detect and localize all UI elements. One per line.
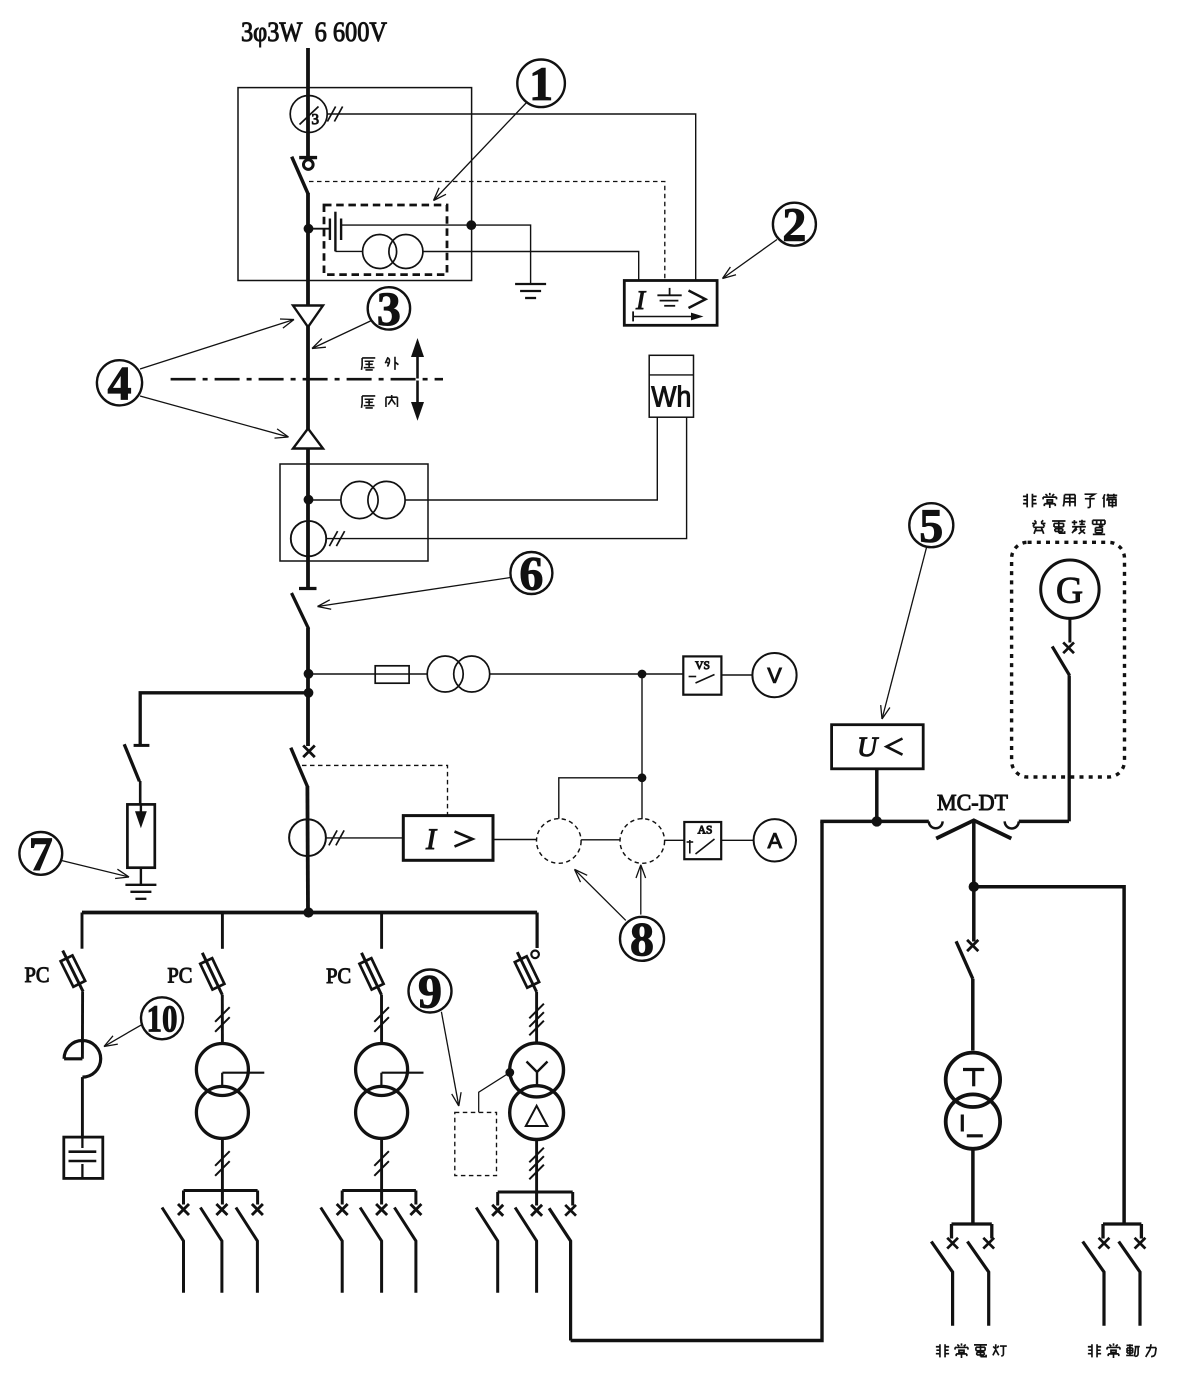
ground symbol (arrester earth) bbox=[125, 884, 156, 886]
MCCB 3a bbox=[337, 1204, 348, 1215]
generator enclosure dotted box bbox=[1012, 542, 1125, 777]
wire: T1 to MCCB group bbox=[221, 1138, 224, 1190]
series reactor L (10) bbox=[64, 1041, 101, 1078]
wire: UV relay to MC-DT net bbox=[875, 769, 879, 822]
wire: CB to bus bbox=[305, 786, 309, 913]
wire: VT to VS switch bbox=[490, 673, 684, 675]
wire: cable run CH1 to CH2 bbox=[306, 327, 310, 430]
svg-text:7: 7 bbox=[29, 828, 53, 881]
wire: commercial side to MC-DT bbox=[820, 820, 929, 824]
wire: link1 to link2 bbox=[581, 839, 620, 841]
disconnector DS (arrester) bbox=[134, 744, 150, 747]
wire: cutout to reactor bbox=[81, 992, 84, 1059]
ground-fault relay box (2) bbox=[624, 281, 717, 326]
MCCB 3b bbox=[376, 1204, 387, 1215]
MCCB group feeder 3 bbox=[342, 1189, 416, 1192]
node D junction (VT tap) bbox=[304, 669, 314, 679]
balloon 5 bbox=[909, 503, 953, 547]
winding symbol T (primary) bbox=[963, 1068, 984, 1071]
node E junction (arrester tap) bbox=[304, 688, 314, 698]
node F junction bbox=[638, 670, 647, 679]
leader arrow from balloon 6 to DS bbox=[318, 578, 511, 607]
svg-text:3: 3 bbox=[311, 112, 319, 128]
voltmeter changeover switch VS bbox=[683, 656, 721, 694]
wire: bus to feeder 4 cutout bbox=[535, 913, 538, 949]
wire: node G to left test link bbox=[559, 778, 642, 819]
property boundary dash-dot line bbox=[171, 378, 443, 381]
wire: generator to switch bbox=[1068, 618, 1071, 642]
node K junction (bus) bbox=[303, 907, 313, 917]
balloon 1 bbox=[517, 60, 565, 108]
wire tick marks (3) bbox=[529, 1004, 544, 1019]
balloon 6 bbox=[510, 552, 552, 594]
T1 centre-tap symbol bbox=[222, 1072, 264, 1074]
T3 star winding symbol Y bbox=[527, 1062, 548, 1085]
balloon 2 bbox=[773, 203, 816, 246]
node B junction on cubicle edge bbox=[466, 220, 476, 230]
wire: fuse to VT bbox=[409, 673, 427, 675]
primary cutout PC4 with fuse and hook bbox=[531, 951, 539, 959]
wire: reactor to capacitor bbox=[81, 1077, 84, 1137]
transformer VT (metering) bbox=[341, 481, 378, 518]
receiving cubicle enclosure box bbox=[238, 88, 472, 281]
node G junction bbox=[638, 773, 647, 782]
svg-text:9: 9 bbox=[418, 966, 442, 1019]
MCCB 4c (feeds emergency circuit) bbox=[565, 1205, 576, 1216]
CT main bbox=[289, 819, 326, 856]
MCCB group feeder 4 bbox=[498, 1191, 573, 1194]
wire: cutout to transformer T1 bbox=[221, 995, 224, 1044]
svg-text:G: G bbox=[1056, 571, 1083, 612]
watt-hour meter Wh bbox=[649, 355, 693, 417]
cable head CH1 (outdoor side) bbox=[293, 306, 323, 328]
svg-text:6: 6 bbox=[519, 548, 543, 601]
svg-text:AS: AS bbox=[698, 824, 713, 836]
leader arrow from balloon 7 to arrester earth bbox=[62, 861, 130, 878]
svg-text:10: 10 bbox=[146, 998, 177, 1040]
wire: node E to arrester branch bbox=[140, 693, 308, 747]
wire: ZPD to earth point bbox=[341, 224, 471, 226]
svg-text:1: 1 bbox=[529, 58, 553, 111]
label outdoor (oku-gai) bbox=[361, 358, 375, 370]
svg-text:3φ3W 6 600V: 3φ3W 6 600V bbox=[241, 17, 387, 48]
transformer T3 star-delta bbox=[510, 1043, 564, 1097]
svg-text:A: A bbox=[768, 829, 783, 853]
svg-text:MC-DT: MC-DT bbox=[937, 790, 1008, 815]
label emergency lighting (hijou dentou) bbox=[936, 1344, 949, 1357]
MC-DT left fixed contact bbox=[929, 821, 943, 828]
leader arrow from balloon 5 to UV relay bbox=[882, 548, 927, 720]
wire: bus to feeder 3 cutout bbox=[380, 913, 383, 949]
svg-text:2: 2 bbox=[782, 199, 806, 252]
wire: link2 to AS switch bbox=[665, 839, 685, 841]
metering VCT cubicle box bbox=[280, 464, 428, 561]
leader arrow from balloon 1 to ZCT unit bbox=[434, 102, 528, 201]
transformer VT (voltmeter) bbox=[427, 656, 463, 692]
transformer T1 (single phase) bbox=[196, 1044, 248, 1096]
leader arrow from balloon 8 to link 1 bbox=[575, 869, 626, 920]
balloon 4 bbox=[97, 360, 142, 405]
leader arrow from balloon 4 to cable head CH2 bbox=[140, 396, 289, 437]
wire tick marks (2) bbox=[215, 1151, 230, 1166]
svg-text:3: 3 bbox=[377, 283, 401, 336]
transformer T2 (single phase) bbox=[356, 1044, 408, 1096]
boundary up arrow bbox=[416, 356, 419, 379]
node J junction bbox=[969, 882, 979, 892]
wire: ZPD tap to GPT primary bbox=[335, 250, 362, 252]
svg-text:V: V bbox=[767, 664, 782, 688]
wire: generator side to MC-DT bbox=[1019, 820, 1069, 824]
wire: VS to voltmeter bbox=[721, 674, 752, 676]
wire tick marks bbox=[329, 830, 337, 845]
wire: arrester to ground bbox=[140, 868, 142, 885]
MCCB 2b bbox=[216, 1204, 227, 1215]
svg-text:5: 5 bbox=[919, 500, 943, 553]
current test link 1 (dashed) bbox=[537, 819, 582, 864]
ammeter A bbox=[754, 819, 796, 861]
wire: metering VT to Wh meter bbox=[405, 417, 657, 500]
wire: DS to CB bbox=[306, 628, 310, 746]
undervoltage relay box U< bbox=[832, 725, 924, 769]
balloon 10 bbox=[141, 997, 183, 1039]
leader arrow from balloon 9 to device box bbox=[441, 1012, 458, 1106]
voltmeter V bbox=[752, 653, 796, 697]
current test link 2 (dashed) bbox=[620, 819, 665, 864]
MC-DT right fixed contact bbox=[1005, 821, 1019, 828]
svg-text:PC: PC bbox=[326, 963, 351, 988]
wire tick marks (2) bbox=[215, 1007, 230, 1022]
wire tick marks (2) bbox=[374, 1151, 389, 1166]
wire: CT to overcurrent relay bbox=[326, 837, 403, 839]
MCCB group feeder 2 bbox=[184, 1189, 258, 1192]
relay (2) directional arrow symbol bbox=[632, 311, 634, 321]
label indoor (oku-nai) bbox=[361, 396, 375, 408]
node C junction bbox=[304, 495, 314, 505]
capacitor ZPD (zero-phase voltage detector) bbox=[329, 219, 331, 241]
wire tick marks bbox=[329, 531, 337, 546]
wire: cable head CH2 to metering bbox=[306, 448, 310, 587]
LV bus bar bbox=[82, 911, 537, 915]
node H junction bbox=[872, 816, 882, 826]
balloon 8 bbox=[620, 917, 664, 961]
node A junction bbox=[304, 224, 314, 234]
unit (1) outer dashed net to relay bbox=[309, 182, 665, 281]
ammeter changeover switch AS bbox=[684, 822, 721, 859]
svg-text:Wh: Wh bbox=[651, 381, 691, 413]
wire: node B to ground bbox=[471, 225, 530, 284]
wire: node J branch to power feeder bbox=[974, 887, 1124, 1224]
lightning arrester LA bbox=[127, 804, 154, 867]
leader arrow from balloon 10 to reactor bbox=[104, 1025, 142, 1047]
wire: emergency supply return path bbox=[571, 821, 822, 1340]
wire tick marks (3) bbox=[529, 1148, 544, 1163]
device (9) dashed box bbox=[455, 1112, 497, 1175]
meter with /3 marking (demand meter) bbox=[290, 96, 327, 133]
primary cutout PC2 with fuse bbox=[202, 953, 222, 995]
wire: incoming service drop bbox=[306, 48, 310, 156]
wire: cutout to transformer T2 bbox=[380, 995, 383, 1044]
wire tick marks (2 conductors) bbox=[327, 107, 335, 122]
wire: meter to ground-fault relay (thin control wire) bbox=[327, 114, 696, 281]
emergency lighting MCCB pair bbox=[952, 1222, 992, 1225]
wire: node F down to test links bbox=[641, 674, 643, 819]
balloon 3 bbox=[368, 287, 410, 329]
ZCT/ZPD unit dashed box (1) bbox=[324, 205, 447, 275]
wire: node D to VT fuse bbox=[309, 673, 376, 675]
MCCB 4a bbox=[492, 1205, 503, 1216]
wire tick marks (2) bbox=[374, 1007, 389, 1022]
dashed trip wire CB to OCR bbox=[302, 765, 448, 815]
MCCB 3c bbox=[410, 1204, 421, 1215]
wire: OCR to test link 1 bbox=[493, 839, 537, 841]
wire: metering CT to Wh meter bbox=[326, 417, 686, 538]
fuse F1 (VT fuse) bbox=[375, 666, 409, 683]
leader arrow from balloon 2 to relay bbox=[723, 240, 778, 279]
emergency power MCCB pair bbox=[1103, 1222, 1141, 1225]
svg-text:4: 4 bbox=[107, 357, 131, 410]
emergency circuit breaker bbox=[967, 940, 978, 951]
wire: node A to ZPD capacitor bbox=[309, 228, 330, 230]
wire: T3 tap to device (9) bbox=[479, 1073, 510, 1113]
svg-text:U: U bbox=[857, 732, 879, 763]
PAS hook-stick switch S0 bbox=[299, 156, 317, 159]
MCCB 2c bbox=[252, 1204, 263, 1215]
T2 centre-tap symbol bbox=[382, 1072, 424, 1074]
emergency lighting transformer bbox=[946, 1053, 1000, 1107]
transformer GPT (grounding PT) bbox=[363, 235, 397, 269]
svg-text:VS: VS bbox=[695, 660, 710, 672]
winding symbol L (secondary) bbox=[961, 1115, 964, 1132]
cable head CH2 (indoor side) bbox=[293, 429, 323, 449]
wire: transformer to lighting MCCBs bbox=[971, 1149, 975, 1224]
wire: cutout to transformer T3 bbox=[535, 992, 538, 1042]
CT (metering) bbox=[291, 521, 326, 556]
svg-text:PC: PC bbox=[167, 962, 192, 987]
primary cutout PC3 with fuse bbox=[362, 953, 382, 995]
wire: GPT secondary to ground-fault relay bbox=[423, 252, 639, 281]
disconnector DS (6) bbox=[299, 587, 317, 590]
balloon 7 bbox=[19, 832, 62, 875]
balloon 9 bbox=[409, 970, 452, 1013]
generator breaker contact bbox=[1063, 642, 1074, 653]
MCCB 4b bbox=[531, 1205, 542, 1216]
wire: T3 to MCCB group bbox=[535, 1140, 538, 1193]
MC-DT double-throw blade bbox=[936, 820, 1011, 838]
wire: node C to metering VT bbox=[309, 499, 341, 501]
wire: node A to cable head CH1 bbox=[306, 229, 310, 306]
wire: MC-DT pole down bbox=[972, 821, 976, 887]
T3 delta winding symbol bbox=[526, 1106, 548, 1126]
wire: CB to emergency transformer bbox=[971, 979, 975, 1051]
wire: bus to feeder 2 cutout bbox=[221, 913, 224, 949]
leader arrow from balloon 8 to link 2 bbox=[640, 865, 642, 915]
ground symbol (ZPD earth) bbox=[515, 283, 546, 285]
leader arrow from balloon 4 to cable head CH1 bbox=[140, 320, 294, 370]
wire: node J down to emergency CB bbox=[972, 887, 976, 942]
generator G bbox=[1041, 560, 1099, 618]
wire: generator switch to MC-DT bbox=[1068, 676, 1071, 822]
wire: DS to arrester bbox=[139, 781, 142, 804]
leader arrow from balloon 3 to cable bbox=[312, 321, 372, 349]
circuit breaker CB bbox=[303, 746, 315, 758]
svg-text:8: 8 bbox=[630, 913, 654, 966]
wire: AS to ammeter bbox=[721, 839, 753, 841]
wire: bus to feeder 1 cutout bbox=[81, 913, 84, 949]
label emergency standby generator line 1 bbox=[1023, 494, 1037, 508]
wire: PAS to node A bbox=[306, 193, 310, 229]
overcurrent relay box I> bbox=[403, 816, 493, 861]
svg-text:PC: PC bbox=[24, 962, 49, 987]
boundary down arrow bbox=[416, 381, 419, 403]
primary cutout PC1 with fuse bbox=[63, 951, 83, 992]
label generator equipment line 2 bbox=[1032, 520, 1045, 534]
wire: T2 to MCCB group bbox=[380, 1138, 383, 1190]
node L tap on T3 bbox=[505, 1068, 514, 1077]
label emergency power (hijou douryoku) bbox=[1088, 1344, 1101, 1357]
MCCB 2a bbox=[178, 1204, 189, 1215]
power capacitor SC bbox=[64, 1137, 103, 1178]
